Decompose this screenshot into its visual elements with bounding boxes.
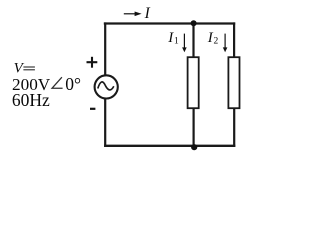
sine wave inside source (98, 82, 114, 90)
current arrow I1 down (183, 34, 185, 48)
node junction dot top (191, 20, 197, 26)
minus polarity mark (90, 108, 95, 110)
wire bottom rail (104, 145, 235, 147)
current arrow I (124, 13, 136, 15)
wire right vertical upper (233, 22, 235, 57)
wire branch 2 vertical lower (233, 109, 235, 147)
svg-text:0°: 0° (65, 74, 81, 94)
node junction dot bottom (191, 144, 197, 150)
angle symbol (52, 77, 63, 88)
impedance box Z1 (188, 57, 199, 108)
AC source V1 (95, 75, 118, 98)
wire left vertical upper (104, 22, 106, 75)
current arrow I2 down (224, 34, 226, 48)
wire branch 1 vertical upper (192, 22, 194, 57)
equals sign drawn (23, 66, 35, 68)
wire left vertical lower (104, 99, 106, 147)
svg-text:1: 1 (174, 37, 179, 47)
svg-text:60Hz: 60Hz (12, 90, 50, 110)
svg-text:2: 2 (214, 37, 219, 47)
wire top rail (104, 22, 235, 24)
svg-text:V: V (14, 60, 25, 76)
impedance box Z2 (228, 57, 239, 108)
svg-text:I: I (144, 5, 151, 22)
wire branch 1 vertical lower (193, 109, 195, 147)
plus polarity mark (87, 61, 98, 63)
